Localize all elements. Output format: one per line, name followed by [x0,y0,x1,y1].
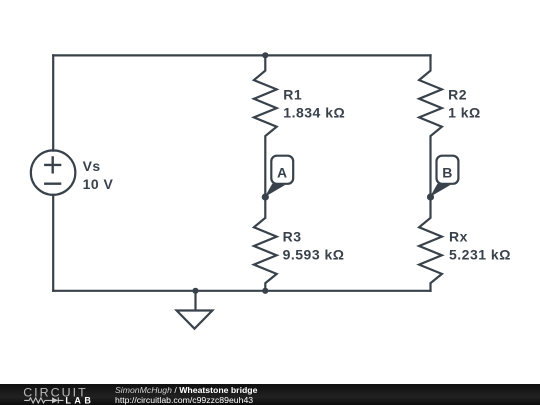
svg-text:B: B [442,164,453,180]
svg-text:A: A [277,164,288,180]
svg-text:1.834 kΩ: 1.834 kΩ [283,105,345,121]
svg-text:LAB: LAB [65,395,94,405]
svg-text:1 kΩ: 1 kΩ [448,105,481,121]
svg-text:10 V: 10 V [83,176,114,192]
svg-text:Vs: Vs [83,158,101,174]
svg-text:R2: R2 [448,86,467,102]
svg-text:Rx: Rx [449,228,468,244]
svg-text:5.231 kΩ: 5.231 kΩ [449,246,511,262]
svg-text:R3: R3 [283,228,302,244]
svg-text:R1: R1 [283,86,302,102]
svg-text:9.593 kΩ: 9.593 kΩ [283,246,345,262]
